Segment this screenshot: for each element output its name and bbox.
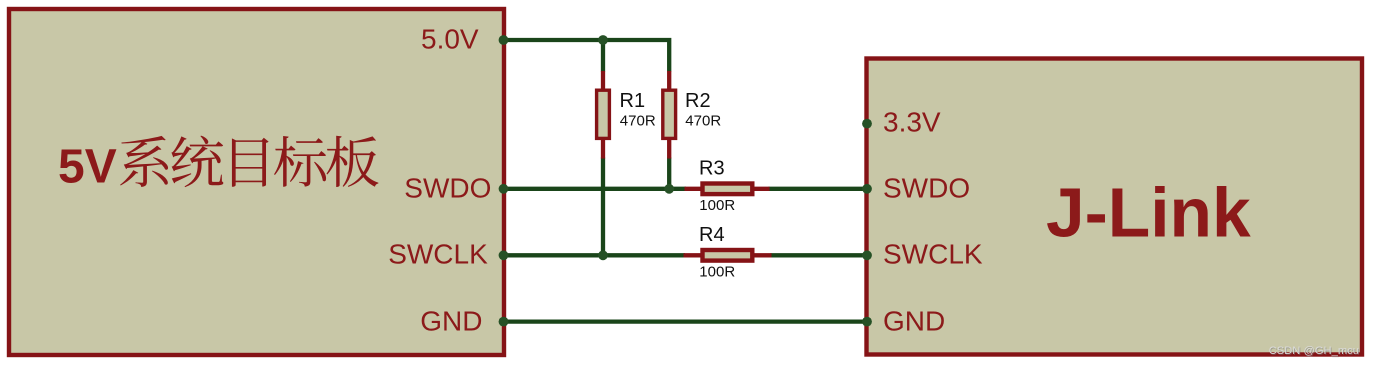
resistor R4 body bbox=[703, 250, 753, 261]
svg-text:470R: 470R bbox=[620, 113, 656, 130]
wire: drop from 5.0V rail to R1 top bbox=[601, 40, 605, 72]
resistor R2 lead (top) bbox=[667, 71, 671, 91]
svg-text:R4: R4 bbox=[699, 224, 725, 246]
svg-text:5V: 5V bbox=[58, 141, 117, 194]
svg-text:100R: 100R bbox=[699, 263, 735, 280]
title glyph 统 bbox=[171, 136, 223, 187]
pin node: 3.3V pin of J-Link (unconnected) bbox=[862, 119, 872, 129]
svg-text:470R: 470R bbox=[685, 113, 721, 130]
pin node: SWCLK pin of J-Link bbox=[862, 250, 872, 260]
svg-text:SWCLK: SWCLK bbox=[388, 239, 488, 270]
resistor R4 lead (right) bbox=[752, 253, 772, 257]
wire: GND net, target board to J-Link bbox=[504, 319, 867, 323]
pin node: 5.0V pin of target board bbox=[499, 35, 509, 45]
junction: SWCLK net / R1 bottom bbox=[598, 250, 608, 260]
wire: R2 bottom down to SWDO net bbox=[667, 158, 671, 189]
svg-text:SWCLK: SWCLK bbox=[883, 239, 983, 270]
pin node: SWCLK pin of target board bbox=[499, 250, 509, 260]
title glyph 系 bbox=[120, 136, 168, 187]
svg-text:5.0V: 5.0V bbox=[421, 24, 479, 55]
resistor R1 lead (bottom) bbox=[601, 137, 605, 159]
resistor R4 lead (left) bbox=[684, 253, 704, 257]
svg-text:SWDO: SWDO bbox=[883, 172, 970, 203]
resistor R3 body bbox=[703, 184, 753, 195]
svg-text:R1: R1 bbox=[620, 90, 646, 112]
block U1: 5V target board (left box) bbox=[9, 9, 504, 355]
title glyph 板 bbox=[326, 136, 378, 187]
resistor R3 lead (left) bbox=[685, 187, 704, 191]
title glyph 标 bbox=[274, 136, 326, 187]
svg-text:100R: 100R bbox=[699, 197, 735, 214]
pin node: GND pin of J-Link bbox=[862, 317, 872, 327]
svg-text:CSDN @GH_mcu: CSDN @GH_mcu bbox=[1269, 345, 1359, 357]
block U2: J-Link (right box) bbox=[867, 59, 1363, 355]
svg-text:GND: GND bbox=[420, 305, 482, 336]
svg-text:J-Link: J-Link bbox=[1046, 174, 1251, 252]
wire: R1 bottom down to SWCLK net (crosses SWDO) bbox=[601, 158, 605, 256]
pin node: GND pin of target board bbox=[499, 317, 509, 327]
title glyph 目 bbox=[232, 138, 269, 187]
junction: SWDO net / R2 bottom bbox=[664, 184, 674, 194]
resistor R2 lead (bottom) bbox=[667, 137, 671, 159]
wire: SWCLK net, R4 to J-Link bbox=[771, 253, 868, 257]
pin node: SWDO pin of J-Link bbox=[862, 184, 872, 194]
resistor R3 lead (right) bbox=[752, 187, 770, 191]
pin node: SWDO pin of target board bbox=[499, 184, 509, 194]
resistor R1 body bbox=[597, 90, 610, 138]
wire: SWDO net, target board to R3 bbox=[504, 187, 686, 191]
wire: SWCLK net, target board to R4 bbox=[504, 253, 685, 257]
resistor R1 lead (top) bbox=[601, 71, 605, 91]
wire: SWDO net, R3 to J-Link bbox=[769, 187, 868, 191]
svg-text:3.3V: 3.3V bbox=[883, 107, 941, 138]
wire: 5.0V rail from target board to R2 top corner bbox=[504, 40, 669, 72]
svg-text:SWDO: SWDO bbox=[404, 172, 491, 203]
svg-text:R2: R2 bbox=[685, 90, 711, 112]
resistor R2 body bbox=[663, 90, 676, 138]
junction: 5.0V rail / R1 top bbox=[598, 35, 608, 45]
svg-text:GND: GND bbox=[883, 305, 945, 336]
svg-text:R3: R3 bbox=[699, 158, 725, 180]
